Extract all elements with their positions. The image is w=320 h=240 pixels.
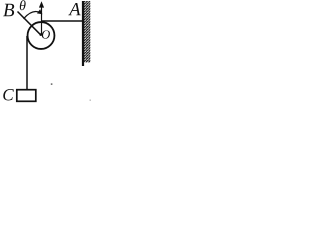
pulley wheel xyxy=(28,22,55,49)
rope to block C xyxy=(26,36,28,90)
scan speck left xyxy=(51,83,53,84)
label C xyxy=(3,89,14,100)
label theta xyxy=(20,0,26,10)
rod BO xyxy=(18,12,42,36)
block C xyxy=(17,90,36,102)
up arrowhead xyxy=(39,1,44,7)
label O xyxy=(42,30,50,38)
wall line xyxy=(82,1,84,66)
scan speck bottom right xyxy=(90,100,91,101)
label B xyxy=(3,4,14,16)
pulley center dot O xyxy=(40,33,43,36)
vertical reference line xyxy=(41,7,43,35)
arc arrowhead xyxy=(37,9,43,14)
rope OA horizontal to wall xyxy=(41,20,83,22)
wall hatching xyxy=(84,1,91,63)
angle theta arc xyxy=(24,12,41,19)
label A xyxy=(68,3,80,15)
